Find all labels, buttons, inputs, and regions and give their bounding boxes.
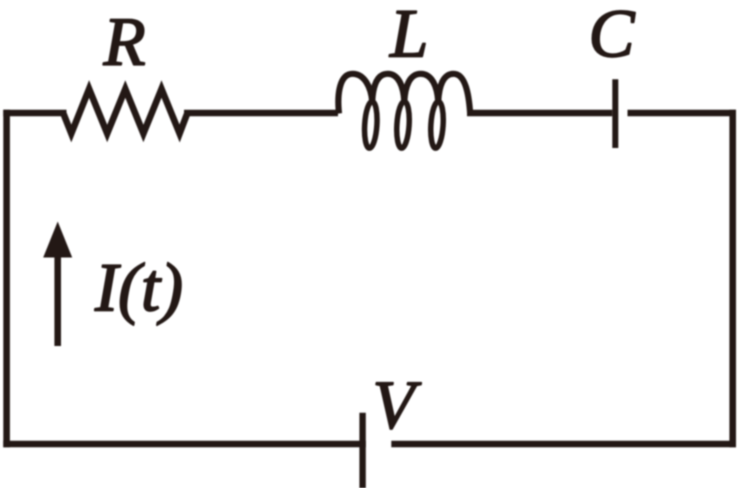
wire: capacitor to top-right corner [628,110,737,117]
capacitor C plate [612,79,618,148]
wire: inductor to capacitor [467,110,612,117]
wire: bottom-right segment to battery [391,441,736,448]
inductor L hump 4 [438,74,470,114]
svg-text:V: V [373,367,422,443]
svg-text:C: C [589,0,636,72]
inductor L bottom loop 2 [395,101,410,148]
wire: right side of loop [729,110,736,448]
inductor L hump 1 [338,74,372,114]
current arrow head [43,222,72,258]
current arrow shaft [54,252,61,346]
wire: battery to bottom-left corner [3,441,366,448]
inductor L bottom loop 1 [363,101,378,148]
inductor L hump 3 [404,74,438,102]
wire: top-left segment to resistor [3,110,66,117]
svg-text:R: R [103,4,146,80]
inductor L bottom loop 3 [429,101,444,148]
svg-text:L: L [389,0,428,72]
resistor R [63,89,187,134]
battery V plate [359,413,365,488]
wire: resistor to inductor [184,110,338,117]
wire: left side of loop [3,110,10,448]
svg-text:I(t): I(t) [94,250,183,326]
inductor L hump 2 [372,74,404,102]
